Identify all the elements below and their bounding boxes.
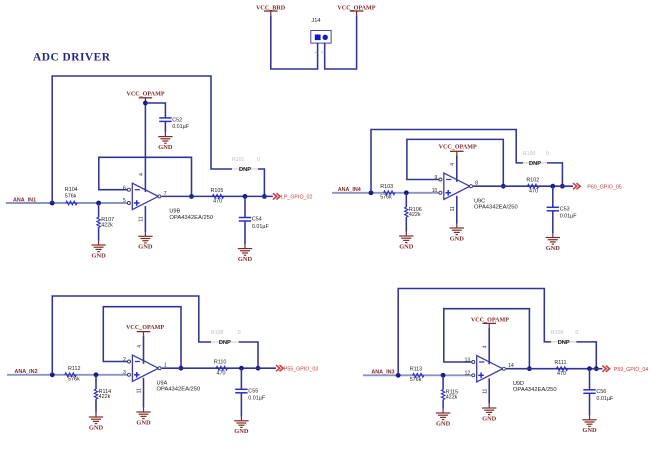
svg-text:0: 0: [238, 330, 241, 336]
svg-text:576k: 576k: [380, 194, 392, 200]
svg-text:GND: GND: [89, 424, 104, 431]
svg-text:VCC_OPAMP: VCC_OPAMP: [126, 325, 164, 331]
svg-text:0.01µF: 0.01µF: [172, 124, 190, 130]
svg-text:GND: GND: [546, 245, 561, 252]
svg-text:DNP: DNP: [529, 161, 541, 167]
svg-text:U9C: U9C: [474, 198, 485, 204]
svg-text:GND: GND: [450, 235, 465, 242]
svg-text:GND: GND: [399, 243, 414, 250]
svg-text:6: 6: [123, 185, 126, 191]
svg-text:4: 4: [483, 345, 489, 348]
svg-text:3: 3: [123, 370, 126, 376]
svg-text:4: 4: [450, 163, 456, 166]
svg-text:P59_GPIO_04: P59_GPIO_04: [614, 367, 649, 373]
svg-text:4: 4: [137, 345, 143, 348]
svg-text:470: 470: [529, 188, 538, 194]
svg-text:GND: GND: [436, 420, 451, 427]
svg-text:U9B: U9B: [169, 209, 180, 215]
svg-text:LP_GPIO_02: LP_GPIO_02: [281, 195, 313, 201]
svg-text:2: 2: [123, 357, 126, 363]
svg-text:R103: R103: [380, 184, 393, 190]
svg-text:OPA4342EA/250: OPA4342EA/250: [474, 205, 518, 211]
svg-text:14: 14: [508, 363, 514, 369]
svg-text:7: 7: [164, 191, 167, 197]
svg-text:576k: 576k: [68, 376, 80, 382]
svg-text:4: 4: [139, 173, 145, 176]
svg-text:8: 8: [475, 181, 478, 187]
svg-text:13: 13: [465, 358, 471, 364]
svg-text:VCC_OPAMP: VCC_OPAMP: [126, 92, 164, 98]
svg-text:422k: 422k: [446, 395, 458, 401]
svg-text:VCC_OPAMP: VCC_OPAMP: [471, 317, 509, 323]
svg-text:12: 12: [465, 370, 471, 376]
svg-text:422k: 422k: [99, 394, 111, 400]
svg-text:R111: R111: [554, 360, 566, 366]
svg-text:9: 9: [435, 175, 438, 181]
svg-text:470: 470: [217, 370, 226, 376]
svg-text:R101: R101: [232, 157, 245, 163]
svg-text:R109: R109: [551, 330, 564, 336]
svg-text:DNP: DNP: [239, 167, 251, 173]
svg-text:GND: GND: [158, 144, 173, 151]
svg-text:470: 470: [557, 371, 566, 377]
svg-text:0.01µF: 0.01µF: [596, 396, 614, 402]
svg-text:1: 1: [164, 363, 167, 369]
svg-text:C54: C54: [252, 217, 262, 223]
svg-text:GND: GND: [91, 252, 106, 259]
svg-text:576k: 576k: [410, 377, 422, 383]
svg-text:GND: GND: [138, 244, 153, 251]
svg-text:10: 10: [432, 188, 438, 194]
svg-text:GND: GND: [582, 427, 597, 434]
svg-text:R112: R112: [68, 366, 81, 372]
svg-text:0: 0: [546, 151, 549, 157]
svg-text:11: 11: [450, 206, 456, 211]
svg-text:J14: J14: [311, 18, 321, 24]
svg-text:422k: 422k: [409, 212, 421, 218]
svg-text:P60_GPIO_05: P60_GPIO_05: [587, 185, 622, 191]
svg-text:11: 11: [137, 388, 143, 393]
svg-text:OPA4342EA/250: OPA4342EA/250: [157, 387, 201, 393]
svg-text:VCC_OPAMP: VCC_OPAMP: [439, 145, 477, 151]
svg-text:GND: GND: [234, 428, 249, 435]
svg-text:OPA4342EA/250: OPA4342EA/250: [513, 387, 557, 393]
svg-text:0.01µF: 0.01µF: [248, 396, 266, 402]
svg-text:R113: R113: [410, 367, 423, 373]
svg-text:470: 470: [213, 199, 222, 205]
svg-text:0: 0: [257, 157, 260, 163]
svg-text:R102: R102: [526, 178, 539, 184]
svg-text:OPA4342EA/250: OPA4342EA/250: [169, 215, 213, 221]
svg-text:ANA_IN1: ANA_IN1: [13, 197, 36, 203]
svg-text:ANA_IN2: ANA_IN2: [15, 369, 38, 375]
svg-text:R105: R105: [211, 188, 224, 194]
svg-text:ADC DRIVER: ADC DRIVER: [33, 52, 111, 64]
svg-text:11: 11: [482, 388, 488, 393]
svg-text:R110: R110: [214, 360, 227, 366]
svg-text:C53: C53: [560, 206, 570, 212]
svg-text:R104: R104: [65, 187, 78, 193]
svg-text:DNP: DNP: [219, 340, 231, 346]
svg-text:U9A: U9A: [157, 380, 168, 386]
svg-text:ANA_IN3: ANA_IN3: [371, 370, 394, 376]
svg-text:DNP: DNP: [558, 340, 570, 346]
svg-text:ANA_IN4: ANA_IN4: [338, 187, 361, 193]
svg-text:C56: C56: [596, 389, 606, 395]
svg-text:R100: R100: [523, 151, 536, 157]
svg-text:R108: R108: [211, 330, 224, 336]
svg-text:0.01µF: 0.01µF: [252, 224, 270, 230]
svg-text:P55_GPIO_03: P55_GPIO_03: [284, 367, 319, 373]
svg-text:11: 11: [139, 216, 145, 221]
svg-text:576k: 576k: [65, 193, 77, 199]
svg-text:0: 0: [575, 330, 578, 336]
svg-text:C52: C52: [172, 117, 182, 123]
svg-text:0.01µF: 0.01µF: [560, 214, 578, 220]
svg-text:C55: C55: [248, 388, 258, 394]
svg-text:GND: GND: [136, 419, 151, 426]
svg-text:422k: 422k: [101, 222, 113, 228]
svg-text:5: 5: [123, 198, 126, 204]
svg-text:U9D: U9D: [513, 381, 524, 387]
svg-text:GND: GND: [238, 256, 253, 263]
svg-text:GND: GND: [482, 415, 497, 422]
